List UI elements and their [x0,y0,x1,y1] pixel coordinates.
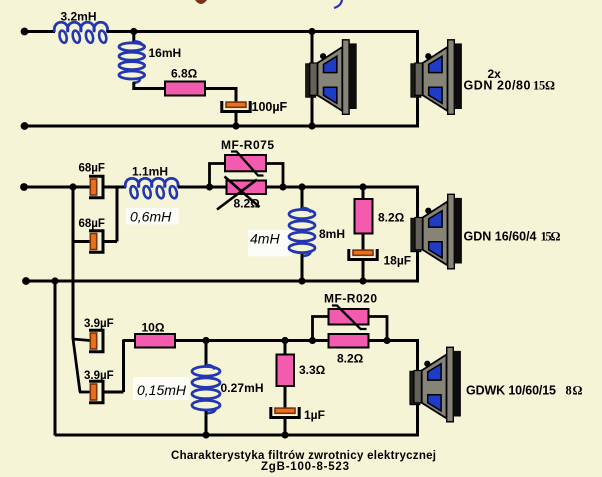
resistor R1 6.8ohm [165,82,205,96]
wire C3 riser [116,186,119,242]
svg-text:3.3Ω: 3.3Ω [299,363,326,377]
wire speaker2 branch [416,30,419,126]
svg-text:68µF: 68µF [79,163,105,175]
inductor L3 1.1mH [125,178,178,187]
svg-text:1µF: 1µF [304,408,325,422]
capacitor C7 1uF [271,407,299,418]
svg-text:MF-R020: MF-R020 [324,292,377,306]
node J5 [298,183,305,190]
wire J5 down to L4 [301,187,304,210]
PS1 diagonal mark [231,152,264,176]
PS2 diagonal mark [332,306,367,330]
resistor R3 8.2ohm [355,199,373,234]
svg-text:GDN 20/80: GDN 20/80 [464,79,531,93]
wire PS1 right branch [266,164,283,188]
svg-text:1.1mH: 1.1mH [132,165,168,179]
wire through R6 [313,339,388,342]
wire L5 to rail [205,411,208,436]
wire L2 to R1 [134,82,166,89]
node J11 [383,337,390,344]
wire mid top rail to speaker3 [363,186,419,189]
wire C6 riser [122,340,125,393]
wire through R2 [210,186,284,189]
wire speaker1 branch [311,32,314,127]
svg-text:3.9µF: 3.9µF [84,370,114,382]
node J3 [206,183,213,190]
wire T1 to L1 [25,30,56,33]
terminal T4 [22,277,30,285]
wire C6 right [103,391,124,394]
wire R5 to C7 [284,386,287,408]
label 0.6mH boxed [126,208,179,225]
svg-text:ZgB-100-8-523: ZgB-100-8-523 [261,461,349,473]
speaker SP1 [306,40,357,115]
node J4 [279,183,286,190]
wire to R4 [124,339,136,342]
wire T3 to J2 [24,186,73,189]
svg-text:8.2Ω: 8.2Ω [234,197,261,211]
inductor L4 8mH [289,210,315,219]
svg-text:8mH: 8mH [319,227,345,241]
label 4mH boxed [248,230,292,257]
terminal T2 [21,122,29,130]
node J10 [309,337,316,344]
title remnant (brown) [195,0,207,4]
wire top-section bottom rail [25,125,420,128]
wire J8 down to L5 [205,341,208,368]
resistor R4 10ohm [135,334,175,348]
node J6 [359,183,366,190]
svg-text:0,15mH: 0,15mH [137,382,187,398]
capacitor C4 18uF [349,249,377,260]
svg-text:16mH: 16mH [149,46,182,60]
inductor L2 16mH [119,43,145,51]
svg-text:8.2Ω: 8.2Ω [337,352,364,366]
capacitor C3 68uF [89,231,103,252]
label 0,15mH boxed [133,377,190,400]
wire C3 right [103,240,117,243]
svg-text:68µF: 68µF [79,218,105,230]
svg-text:GDN 16/60/4: GDN 16/60/4 [464,230,537,244]
node J9 [281,337,288,344]
wire L4 to rail [301,254,304,281]
wire C4 to rail [362,261,365,282]
wire L3 to J3 [178,186,210,189]
svg-text:15Ω: 15Ω [533,79,555,93]
node SP1 top [308,28,315,35]
wire J10 up branch [313,317,329,341]
polyswitch PS1 MF-R075 [225,155,266,171]
cross-out X line1 [225,177,260,208]
svg-text:GDWK 10/60/15: GDWK 10/60/15 [466,384,556,398]
svg-text:3.9µF: 3.9µF [84,318,114,330]
wire to C6 [79,391,90,394]
node J8 [202,337,209,344]
wire C2 to node [103,186,118,189]
wire PS2 right branch [369,317,388,341]
polyswitch PS2 MF-R020 [329,309,369,325]
speaker SP2 [411,40,462,115]
speaker SP3 [411,194,462,268]
wire speaker4 branch [416,339,419,437]
svg-text:6.8Ω: 6.8Ω [171,67,198,81]
resistor R2 8.2ohm (bypassed) [227,181,267,195]
terminal T1 [21,28,29,36]
node SP1 bottom [308,122,315,129]
node L5-rail [202,431,209,438]
wire J5 to J6 [302,186,363,189]
capacitor C1 100uF [222,101,250,112]
svg-text:10Ω: 10Ω [142,321,165,335]
inductor L1 3.2mH [54,22,107,32]
wire J8 to J9 [206,339,285,342]
terminal T3 [20,183,28,191]
wire J4 to J5 [283,186,302,189]
wire J9 down [284,341,287,356]
svg-text:0.27mH: 0.27mH [221,381,264,395]
node J1 [130,28,137,35]
svg-text:15Ω: 15Ω [541,230,561,244]
wire bottom rail [55,434,419,437]
svg-text:8.2Ω: 8.2Ω [378,211,405,225]
capacitor C6 3.9uF [89,381,103,402]
inductor L5 0.27mH [192,367,220,377]
wire R4 to J8 [175,339,206,342]
wire J2 down [72,187,75,242]
wire input drop x73 [72,242,75,340]
capacitor C5 3.9uF [89,330,103,351]
wire J11 to speaker4 [387,339,419,342]
resistor R5 3.3ohm [277,355,295,387]
svg-text:0,6mH: 0,6mH [130,209,172,225]
wire J7 down left rail [54,281,57,436]
wire to C3 [73,240,90,243]
wire J1 down to L2 [132,32,135,43]
node L4-rail [298,277,305,284]
wire slant to C6 [73,339,80,392]
svg-text:100µF: 100µF [252,100,288,114]
wire top rail [107,30,420,33]
wire J2 to C2 [73,186,90,189]
node C7-rail [281,431,288,438]
wire R1 to C1 [205,89,236,102]
node J2 [69,183,76,190]
speaker SP4 [410,347,461,422]
svg-text:3.2mH: 3.2mH [61,10,97,24]
wire speaker3 branch [416,186,419,283]
wire J6 down [362,187,365,200]
wire C7 to rail [284,419,287,436]
wire J9 to J10 [285,339,313,342]
wire R3 to C4 [362,234,365,251]
wire C1 to bottom rail [235,113,238,127]
wire mid bottom rail [25,280,420,283]
svg-text:18µF: 18µF [384,254,412,268]
capacitor C2 68uF [89,176,103,197]
node C1-rail [232,122,239,129]
cross-out X line2 [217,180,257,210]
wire to L3 [117,186,126,189]
node C4-rail [359,277,366,284]
title remnant (blue comma) [334,0,342,8]
svg-text:MF-R075: MF-R075 [221,138,274,152]
resistor R6 8.2ohm [329,334,369,348]
svg-text:4mH: 4mH [250,231,280,247]
node J7 [51,277,58,284]
svg-text:8Ω: 8Ω [566,384,583,398]
wire J3 up branch [210,164,226,188]
wire to C5 [73,339,90,341]
